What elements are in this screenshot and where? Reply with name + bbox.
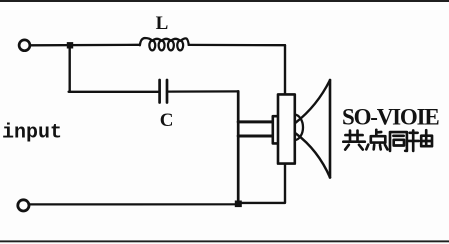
- svg-text:L: L: [156, 13, 169, 34]
- speaker horn mouth: [329, 80, 332, 178]
- glyph 共: [343, 131, 365, 150]
- wire: speaker return down: [239, 164, 285, 203]
- wire: upper tweeter lead: [238, 120, 272, 123]
- speaker magnet body: [278, 94, 295, 163]
- speaker horn upper curve: [296, 80, 330, 123]
- glyph 同: [390, 132, 407, 151]
- wire: inductor to speaker corner: [189, 44, 285, 47]
- wire: bottom input wire: [29, 203, 236, 205]
- inductor L: [140, 38, 189, 45]
- node B (bottom junction): [235, 201, 242, 208]
- speaker dome tweeter: [295, 115, 303, 141]
- speaker horn lower curve: [296, 134, 330, 178]
- glyph 轴: [409, 130, 433, 151]
- wire: capacitor branch left: [69, 91, 159, 93]
- wire: vertical drop to bottom junction: [237, 91, 240, 204]
- wire: capacitor to tweeter drop: [168, 90, 238, 92]
- node A (top junction): [67, 42, 73, 48]
- glyph 点: [366, 130, 387, 150]
- wire: lower tweeter lead: [238, 135, 272, 138]
- wire: junction down to capacitor branch: [68, 46, 70, 92]
- input terminal (-): [18, 200, 29, 211]
- wire: top terminal to inductor: [31, 44, 140, 47]
- input terminal (+): [19, 40, 30, 51]
- svg-text:SO-VIOIE: SO-VIOIE: [342, 104, 439, 129]
- wire: corner down to speaker top: [284, 45, 286, 94]
- speaker tweeter terminal block: [273, 116, 279, 143]
- svg-text:input: input: [2, 122, 62, 145]
- capacitor C: [158, 80, 161, 103]
- svg-text:C: C: [160, 110, 174, 131]
- label 共点同轴 (drawn glyphs): [343, 130, 432, 151]
